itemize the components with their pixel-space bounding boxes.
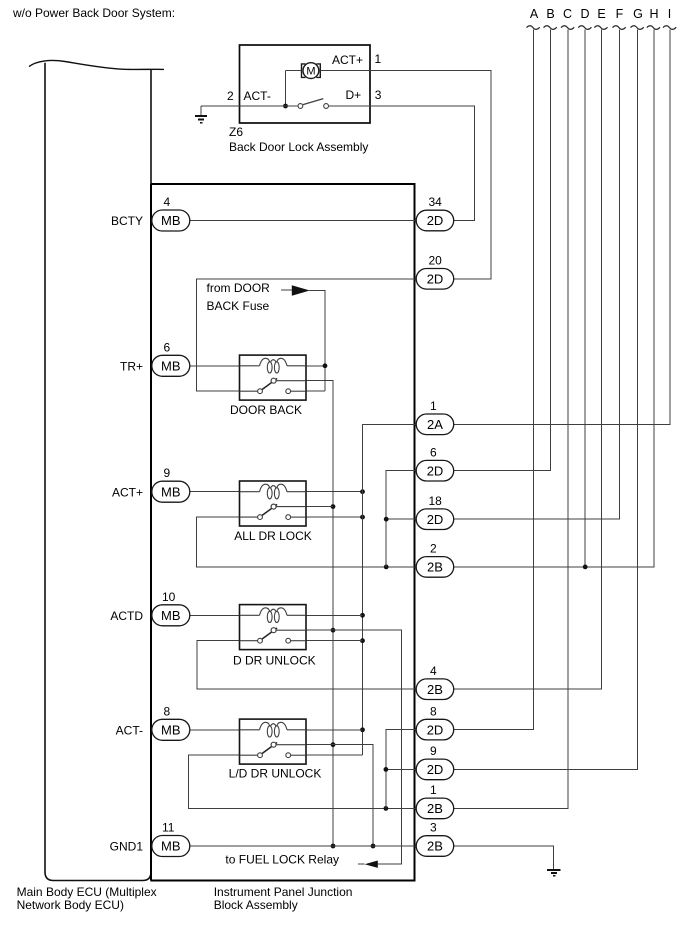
svg-text:2B: 2B <box>427 801 443 816</box>
wire pin3 D+ to 2D-34 <box>370 106 475 221</box>
connector MB pin 6 <box>152 355 190 376</box>
wire 2D-6 left vertical <box>386 471 416 567</box>
node dot 2D6/2D18 <box>384 517 389 522</box>
node dot armature/GND1 <box>331 844 336 849</box>
svg-text:MB: MB <box>161 359 181 374</box>
svg-text:8: 8 <box>164 704 171 718</box>
svg-text:2D: 2D <box>427 463 444 478</box>
wire DOOR BACK coil right <box>306 365 325 367</box>
ground G2 (body ground) <box>547 870 560 876</box>
svg-text:2D: 2D <box>427 762 444 777</box>
svg-text:3: 3 <box>375 88 382 102</box>
continuation mark net H <box>647 26 660 30</box>
svg-text:2D: 2D <box>427 512 444 527</box>
svg-text:2D: 2D <box>427 272 444 287</box>
wires layer <box>189 30 671 876</box>
wire 2B-3 right to ground <box>454 846 554 869</box>
wire 2B-1 right to line C <box>454 30 569 809</box>
wire DOOR BACK left contact loop to 2D-20 <box>197 279 417 391</box>
svg-text:to FUEL LOCK Relay: to FUEL LOCK Relay <box>225 853 339 867</box>
svg-text:1: 1 <box>430 399 437 413</box>
continuation mark net E <box>594 26 607 30</box>
continuation mark net A <box>527 26 540 30</box>
svg-text:BCTY: BCTY <box>111 214 143 228</box>
wire 2D-9 left <box>386 768 417 770</box>
connector MB pin 9 <box>152 481 190 502</box>
svg-text:2: 2 <box>430 542 437 556</box>
svg-text:H: H <box>649 7 658 21</box>
node dot armature/ALL DR LOCK <box>331 504 336 509</box>
svg-text:20: 20 <box>429 254 443 268</box>
svg-text:9: 9 <box>164 466 171 480</box>
ground G1 (back door lock) <box>195 106 207 123</box>
node dot armature/D DR UNLOCK <box>331 628 336 633</box>
connector 2D pin 6 <box>416 460 454 481</box>
svg-text:I: I <box>668 7 671 21</box>
node dot line D on 2B-2 wire <box>583 565 588 570</box>
svg-text:D: D <box>580 7 589 21</box>
wire ALL DR LOCK armature right <box>306 506 333 508</box>
svg-text:2: 2 <box>227 89 234 103</box>
wire motor to pin 1 <box>320 70 370 72</box>
relay L/D DR UNLOCK <box>240 719 307 764</box>
Main Body ECU outline <box>29 60 164 880</box>
connector MB pin 11 <box>152 836 190 857</box>
wire 2A-1 right to line I <box>454 30 671 425</box>
wire arrow to coil node <box>309 291 325 392</box>
wire 2A-1 left vertical <box>363 424 417 755</box>
wire 2D-18 left <box>386 518 416 520</box>
connector 2B pin 2 <box>416 557 454 578</box>
wire D DR UNLOCK contact right <box>306 640 363 642</box>
svg-text:MB: MB <box>161 608 181 623</box>
wire LD DR UNLOCK contact right <box>306 754 363 756</box>
svg-text:Z6: Z6 <box>229 125 243 139</box>
wire 2D-18 right to line F <box>454 30 620 520</box>
arrow head (fuse feed) <box>292 285 310 295</box>
wire ACT- MB8 to LD DR UNLOCK coil <box>190 729 240 731</box>
connector 2D pin 20 <box>416 269 454 290</box>
svg-text:L/D DR UNLOCK: L/D DR UNLOCK <box>229 767 322 781</box>
wire DOOR BACK armature chain vertical <box>306 381 333 846</box>
connector MB pin 10 <box>152 605 190 626</box>
node dot 2D6 chain on 2B-2 wire <box>384 565 389 570</box>
connector 2B pin 4 <box>416 679 454 700</box>
ACT- wire from ground into switch <box>201 105 298 107</box>
svg-text:1: 1 <box>375 52 382 66</box>
wire pin1 ACT+ to 2D-20 <box>370 71 491 279</box>
wire TR+ MB6 to DOOR BACK coil <box>190 365 240 367</box>
wire line D vertical <box>584 30 586 567</box>
connector 2D pin 9 <box>416 759 454 780</box>
wire ALL DR LOCK contact right <box>306 516 363 518</box>
svg-text:TR+: TR+ <box>120 360 143 374</box>
svg-text:BACK Fuse: BACK Fuse <box>207 299 270 313</box>
svg-text:2D: 2D <box>427 213 444 228</box>
wire ALL DR LOCK left contact loop to 2B-2 <box>197 517 417 567</box>
svg-text:18: 18 <box>429 494 443 508</box>
svg-text:D DR UNLOCK: D DR UNLOCK <box>233 653 316 667</box>
connector MB pin 8 <box>152 719 190 740</box>
svg-text:6: 6 <box>430 445 437 459</box>
svg-text:from DOOR: from DOOR <box>207 281 271 295</box>
svg-text:ACT+: ACT+ <box>112 485 143 499</box>
connector 2D pin 8 <box>416 719 454 740</box>
svg-text:MB: MB <box>161 723 181 738</box>
node dot 2A1/LD coil <box>360 727 365 732</box>
node dot ACT- junction <box>283 104 288 109</box>
wire 2D-8 right to line A <box>454 30 534 730</box>
connector ovals layer <box>152 210 454 857</box>
wire ACT+ MB9 to ALL DR LOCK coil <box>190 491 240 493</box>
svg-text:M: M <box>306 66 315 78</box>
svg-text:E: E <box>597 7 605 21</box>
svg-text:MB: MB <box>161 839 181 854</box>
node dot 2A1/D coil <box>360 613 365 618</box>
node dot 2D8 chain on 2B-1 wire <box>384 806 389 811</box>
svg-text:1: 1 <box>430 783 437 797</box>
wire LD DR UNLOCK coil right <box>306 729 363 731</box>
svg-text:ACT-: ACT- <box>116 724 143 738</box>
connector MB pin 4 <box>152 210 190 231</box>
svg-text:2D: 2D <box>427 722 444 737</box>
svg-text:2B: 2B <box>427 839 443 854</box>
relay ALL DR LOCK <box>240 481 307 526</box>
relay D DR UNLOCK <box>240 605 307 650</box>
wire 2D-9 right to line G <box>454 30 638 770</box>
continuation mark net F <box>613 26 626 30</box>
node dot 2D8/2D9 <box>384 767 389 772</box>
wire motor to ACT- node <box>286 70 302 72</box>
svg-text:w/o Power Back Door System:: w/o Power Back Door System: <box>12 6 175 20</box>
svg-text:F: F <box>616 7 624 21</box>
svg-text:2B: 2B <box>427 682 443 697</box>
wire 2B-4 right to line E <box>454 30 602 690</box>
connector 2B pin 1 <box>416 798 454 819</box>
node dot LD armature/GND1 <box>371 844 376 849</box>
wire DOOR BACK contact right <box>306 390 325 392</box>
continuation mark net B <box>544 26 557 30</box>
connector 2D pin 18 <box>416 509 454 530</box>
node dot 2A1/contact <box>360 515 365 520</box>
svg-text:Back Door Lock Assembly: Back Door Lock Assembly <box>229 140 368 154</box>
svg-text:B: B <box>546 7 554 21</box>
net letters A-I <box>530 7 671 21</box>
node dot armature/LD DR UNLOCK <box>331 742 336 747</box>
svg-text:4: 4 <box>164 195 171 209</box>
continuation mark net C <box>561 26 574 30</box>
wire D DR UNLOCK left contact loop to 2B-4 <box>197 641 417 690</box>
connector 2D pin 34 <box>416 210 454 231</box>
svg-text:D+: D+ <box>346 88 362 102</box>
wire GND1 MB11 to 2B-3 <box>190 845 417 847</box>
continuation mark net G <box>631 26 644 30</box>
wire 2D-6 right to line B <box>454 30 551 471</box>
svg-text:Network Body ECU): Network Body ECU) <box>17 898 124 912</box>
svg-text:Block Assembly: Block Assembly <box>214 898 298 912</box>
svg-text:9: 9 <box>430 744 437 758</box>
svg-text:3: 3 <box>430 821 437 835</box>
svg-text:MB: MB <box>161 213 181 228</box>
svg-text:34: 34 <box>429 195 443 209</box>
svg-text:MB: MB <box>161 484 181 499</box>
continuation mark net I <box>663 26 676 30</box>
svg-text:11: 11 <box>162 821 175 835</box>
arrow head (to FUEL LOCK Relay) <box>365 861 378 868</box>
motor M1 <box>302 63 321 79</box>
svg-text:Main Body ECU (Multiplex: Main Body ECU (Multiplex <box>17 885 157 899</box>
svg-text:ACT+: ACT+ <box>332 53 363 67</box>
node dot fuse/coil junction <box>323 363 328 368</box>
wire D DR UNLOCK armature right to FUEL LOCK vertical <box>306 630 401 864</box>
wire ALL DR LOCK coil right <box>306 491 363 493</box>
wire 2B-2 right to lines D and H <box>454 30 654 567</box>
Z6 Back Door Lock Assembly box <box>195 45 370 123</box>
svg-text:4: 4 <box>430 664 437 678</box>
wire LD DR UNLOCK armature right <box>306 745 373 846</box>
svg-text:Instrument Panel Junction: Instrument Panel Junction <box>214 885 353 899</box>
switch SW1 <box>298 104 303 109</box>
svg-text:2A: 2A <box>427 417 443 432</box>
svg-text:A: A <box>530 7 539 21</box>
continuation squiggles A-I <box>527 26 677 30</box>
svg-text:GND1: GND1 <box>110 840 144 854</box>
node dot 2A1/coil <box>360 489 365 494</box>
svg-text:2B: 2B <box>427 560 443 575</box>
wire 2D-8 left vertical <box>386 730 417 809</box>
svg-text:8: 8 <box>430 704 437 718</box>
svg-text:ALL DR LOCK: ALL DR LOCK <box>234 529 312 543</box>
connector 2B pin 3 <box>416 836 454 857</box>
node dot 2A1/D contact <box>360 638 365 643</box>
wire BCTY MB4 to 2D-34 <box>190 220 417 222</box>
svg-text:DOOR BACK: DOOR BACK <box>230 403 302 417</box>
continuation mark net D <box>578 26 591 30</box>
svg-text:G: G <box>633 7 643 21</box>
wire D DR UNLOCK coil right <box>306 614 363 616</box>
svg-text:ACTD: ACTD <box>110 609 143 623</box>
svg-text:10: 10 <box>162 590 176 604</box>
relay DOOR BACK <box>240 355 307 400</box>
Instrument Panel Junction Block box <box>151 184 415 881</box>
svg-text:C: C <box>563 7 572 21</box>
connector 2A pin 1 <box>416 414 454 435</box>
wire ACTD MB10 to D DR UNLOCK coil <box>190 614 240 616</box>
wire from DOOR BACK fuse arrow <box>281 289 296 291</box>
wire LD DR UNLOCK left contact loop to 2B-1 <box>189 755 417 808</box>
wire arrow tail stub <box>358 863 365 865</box>
svg-text:6: 6 <box>164 340 171 354</box>
svg-text:ACT-: ACT- <box>244 89 271 103</box>
